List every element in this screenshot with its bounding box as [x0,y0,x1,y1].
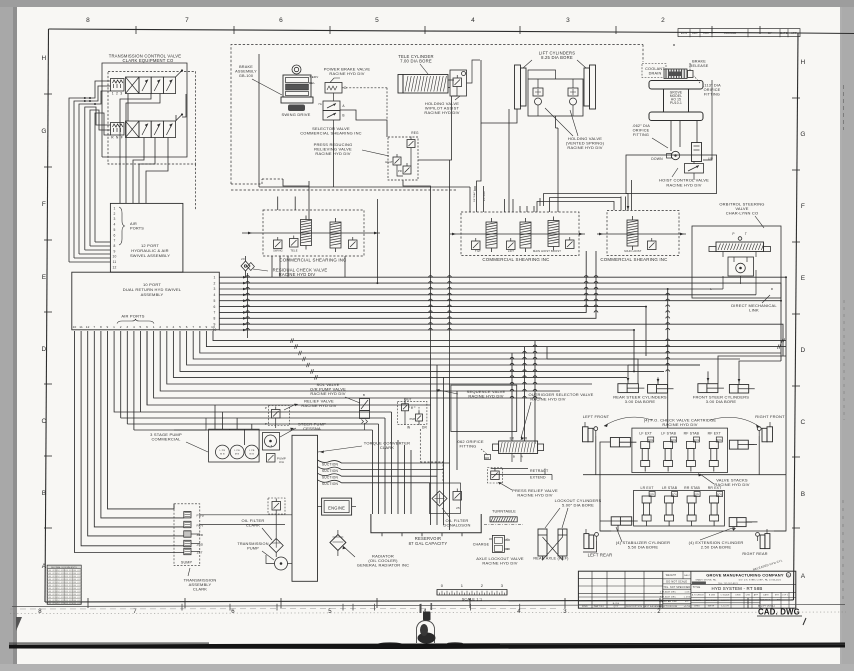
svg-text:1/64 .015: 1/64 .015 [72,579,80,581]
sol valve [360,393,370,430]
svg-text:SUCTION: SUCTION [322,462,339,466]
svg-text:.062″ DIA: .062″ DIA [632,124,650,128]
svg-text:1/64 .015: 1/64 .015 [72,603,80,605]
svg-text:CHK: CHK [703,31,709,35]
hops on inter-bank verticals [584,276,670,372]
transmission assembly dashed box [174,504,200,566]
pump inlet risers [215,405,252,445]
svg-text:1/64 .015: 1/64 .015 [64,594,72,596]
lift cylinder left barrel [515,65,527,109]
torque converter housing [292,435,318,581]
svg-text:REV: REV [777,600,782,602]
svg-text:10: 10 [112,255,116,259]
svg-text:PU10-1: PU10-1 [670,101,682,105]
svg-text:1/64 .015: 1/64 .015 [56,594,64,596]
rear steer cylinder left [618,384,645,393]
stack LR STAB [662,486,678,526]
svg-text:1/64 .015: 1/64 .015 [56,582,64,584]
svg-text:ECN: ECN [681,31,687,35]
svg-text:M B: M B [250,454,255,456]
retract extend lines [491,469,552,481]
label lockout cylinders [545,498,601,528]
hoist control valve internals [651,143,713,181]
label left front [583,414,610,419]
svg-text:1/64 .015: 1/64 .015 [64,576,72,578]
svg-text:±1/16: ±1/16 [684,606,691,608]
tele cylinder [398,75,454,94]
svg-text:10: 10 [211,325,215,329]
svg-text:MAIN HOIST: MAIN HOIST [624,249,641,253]
svg-text:C: C [801,419,806,426]
holding valve vented spring right [568,79,578,116]
label air ports (10 port) [117,314,154,324]
svg-text:L PB: L PB [249,450,255,452]
title block bottom rows [691,592,796,608]
svg-text:RR STAB: RR STAB [684,486,700,490]
decimal equivalents legend table [47,565,81,605]
svg-text:F: F [42,201,46,208]
svg-text:U/A: U/A [279,460,284,464]
label transmission control valve [109,54,182,64]
svg-text:7: 7 [213,311,215,315]
svg-text:5: 5 [140,325,142,329]
row2 bottom bus line [600,530,786,532]
staircase double-hash break marks [290,338,784,379]
svg-text:CHARGE: CHARGE [473,543,490,547]
label relief valve [284,399,337,411]
reservoir tank [371,514,481,536]
svg-text:SWING DRIVE: SWING DRIVE [281,112,310,117]
out-in-dr valve block [397,398,427,430]
svg-text:RACINE HYD DIV: RACINE HYD DIV [517,493,552,498]
label oil filter donaldson [442,508,471,528]
svg-text:RACINE HYD DIV: RACINE HYD DIV [567,145,602,150]
svg-text:H: H [42,55,47,62]
label left rear [588,553,613,558]
reservoir inlet pipes [140,412,411,514]
svg-text:PMP: PMP [410,418,416,421]
orbitrol gerotor section [710,257,774,295]
svg-text:4: 4 [173,325,175,329]
svg-text:RIGHT REAR: RIGHT REAR [742,552,767,556]
svg-text:SUCTION: SUCTION [322,469,339,473]
zone numbers top [86,17,665,24]
svg-text:1 OF 1: 1 OF 1 [782,595,789,597]
svg-text:E: E [801,275,806,282]
transmission control valve outline box [102,63,196,164]
dashed stub below tcv box [195,164,197,210]
press relief valve (outrigger) [488,468,503,484]
svg-text:FIND: FIND [582,606,588,608]
label selector valve [300,126,362,136]
svg-text:CHK: CHK [746,595,751,597]
valve stack row 2 box [634,490,725,526]
svg-text:BY: BY [768,31,772,35]
right rear corner cylinder [756,529,770,549]
svg-text:TITLE: TITLE [693,586,701,589]
svg-text:CAD FILE: CAD FILE [760,599,771,602]
hoist brake pack [664,63,693,79]
svg-text:H: H [801,59,806,66]
stack RR STAB [684,486,700,526]
svg-text:TELE: TELE [290,249,297,253]
bottom dotted baseline [10,609,846,614]
turntable bar [484,517,523,525]
svg-text:DATE: DATE [763,594,769,597]
svg-text:SMITH: SMITH [708,605,715,607]
label rear steer cylinders [613,395,667,405]
svg-text:87 GAL CAPACITY: 87 GAL CAPACITY [409,541,448,546]
svg-text:REAR AXLE (REF): REAR AXLE (REF) [533,557,569,561]
axle lockout valve [489,535,510,552]
label radiator [343,546,410,568]
svg-text:LF STAB: LF STAB [661,432,676,436]
oil filter donaldson box [430,483,461,514]
svg-text:3: 3 [213,287,215,291]
svg-text:10: 10 [73,325,77,329]
label holding valve vented spring [545,108,605,150]
svg-text:DONALDSON: DONALDSON [443,523,470,528]
svg-text:3 PLACE DEC: 3 PLACE DEC [660,595,677,598]
svg-text:C: C [42,418,47,425]
svg-text:1/64 .015: 1/64 .015 [72,585,80,587]
label transmission assembly [184,568,217,592]
air port lines descending [114,331,206,430]
svg-text:±.06: ±.06 [684,592,690,594]
svg-text:RF EXT: RF EXT [708,432,721,436]
svg-text:2: 2 [159,325,161,329]
svg-text:RIGHT FRONT: RIGHT FRONT [755,414,785,419]
hoist drum grove model HO 15 [649,81,703,121]
svg-text:RACINE HYD DIV: RACINE HYD DIV [301,403,336,408]
svg-text:RELEASE: RELEASE [690,64,709,68]
label extension cylinder [689,527,744,550]
bank 2 risers [473,186,558,212]
svg-text:G: G [41,128,46,135]
svg-text:5: 5 [213,299,215,303]
svg-text:RACINE HYD DIV: RACINE HYD DIV [329,71,364,76]
svg-text:BRAKE: BRAKE [692,60,706,64]
svg-text:ORIFICE: ORIFICE [633,129,650,133]
svg-text:DESCRIPTION: DESCRIPTION [626,606,643,608]
commercial shearing bank 1 (swing/tele) [263,210,364,263]
label released hyd cyl rotated [752,558,783,571]
svg-text:7: 7 [93,325,95,329]
labels EX PR [510,437,528,441]
svg-text:D: D [801,347,806,354]
wires transmission valves to left bundle [69,81,111,262]
label sol valve o/r pump valve [310,382,360,403]
svg-text:1/64 .015: 1/64 .015 [47,600,55,602]
svg-text:6: 6 [231,609,235,615]
svg-text:R N F: R N F [111,136,123,140]
svg-text:TILT: TILT [475,249,481,253]
3 stage pump box [209,429,260,462]
svg-text:1/64 .015: 1/64 .015 [56,597,64,599]
stabilizer cylinder rear-left [611,517,638,525]
bank 1 feed line [242,197,380,284]
label brake release [690,60,709,69]
label transmission pump [237,542,274,560]
title block title [691,585,796,593]
svg-text:6: 6 [113,233,115,237]
svg-text:11: 11 [113,260,117,264]
radiator diamond [330,530,346,556]
bus arrows [243,276,247,331]
svg-text:8: 8 [86,17,90,24]
bank2-bank3 connector loops [537,194,629,211]
title block middle column [659,571,691,608]
svg-text:1/64 .015: 1/64 .015 [47,603,55,605]
zone ticks bottom [88,598,748,608]
left front corner cylinder [583,422,598,442]
svg-text:RACINE HYD DIV: RACINE HYD DIV [468,394,503,399]
svg-text:RACINE HYD DIV: RACINE HYD DIV [310,391,345,396]
svg-text:1ST: 1ST [197,550,203,554]
steer cylinder feed wires [547,347,786,385]
label brake assembly GB-100 [235,65,282,95]
svg-text:1/64 .015: 1/64 .015 [47,585,55,587]
svg-text:6: 6 [146,325,148,329]
svg-text:CALC: CALC [684,574,691,577]
svg-text:1/64 .015: 1/64 .015 [56,591,64,593]
svg-text:±.016: ±.016 [684,596,691,598]
svg-text:CLARK: CLARK [380,445,394,450]
svg-text:L PB: L PB [234,450,240,452]
left bottom black wedge [16,617,22,631]
svg-text:COOLANT: COOLANT [645,67,665,71]
svg-text:D: D [42,346,47,353]
svg-text:7: 7 [185,17,189,24]
label press relief valve [498,482,558,498]
transmission pump circle [266,555,292,570]
svg-text:RETRACT: RETRACT [473,190,476,202]
svg-text:5.00″ DIA BORE: 5.00″ DIA BORE [562,503,594,508]
3 stage pump circles [216,445,259,459]
svg-text:1/64 .015: 1/64 .015 [56,603,64,605]
zone letters right [800,59,805,580]
svg-text:ANGULAR DIM: ANGULAR DIM [659,600,676,603]
bank1 bottom stubs [272,256,345,277]
svg-text:TOL. NOT SPECIFIED: TOL. NOT SPECIFIED [663,587,690,589]
right edge bus vertical [785,356,787,475]
svg-text:COMMERCIAL: COMMERCIAL [151,437,181,442]
svg-text:12: 12 [86,325,90,329]
svg-text:SHT: SHT [775,595,780,597]
label reservoir [409,536,448,546]
svg-text:1/64 .015: 1/64 .015 [72,570,80,572]
12-port hydraulic & air swivel assembly box [110,203,182,272]
outrigger selector valve [493,441,544,462]
commercial shearing bank 3 (main hoist) [600,211,679,263]
svg-text:4: 4 [133,325,135,329]
svg-text:CHAR-LYNN CO: CHAR-LYNN CO [726,211,759,216]
svg-text:AIR PORTS: AIR PORTS [121,314,144,319]
svg-text:25: 25 [456,506,460,510]
svg-text:RACINE HYD DIV: RACINE HYD DIV [424,110,459,115]
vertical from residual check crossing bus [246,273,250,338]
svg-text:RF STAB: RF STAB [684,432,700,436]
label stabilizer cylinder [616,527,671,550]
title block parts grid [578,571,663,608]
svg-text:1/64 .015: 1/64 .015 [64,591,72,593]
port numbers bottom of 10-port box [73,325,216,329]
wire junction dots left bundle [84,97,96,105]
mid verticals crossing to reservoir [431,355,458,530]
orbitrol steering valve symbol [709,232,771,257]
svg-text:7: 7 [113,239,115,243]
svg-text:1/64 .015: 1/64 .015 [64,585,72,587]
label charge [473,543,490,547]
svg-text:A: A [801,573,806,580]
second residual check diamond [241,257,254,271]
svg-text:2: 2 [661,17,665,24]
svg-text:T: T [745,232,747,236]
label hoist control valve [659,168,709,188]
svg-text:L B: L B [269,446,273,448]
svg-text:MAIN HOIST BOOST: MAIN HOIST BOOST [533,249,561,253]
svg-text:1: 1 [113,207,115,211]
svg-text:1/64 .015: 1/64 .015 [72,573,80,575]
oil filter clark valve [268,498,285,539]
svg-text:TRANSMISSION: TRANSMISSION [237,542,268,546]
svg-text:1/64 .015: 1/64 .015 [56,600,64,602]
svg-text:REG: REG [411,131,419,135]
power brake valve [325,78,347,101]
svg-text:RACINE HYD DIV: RACINE HYD DIV [666,183,701,188]
svg-text:EXTEND: EXTEND [484,191,486,201]
label turntable [492,510,516,514]
label axle lockout valve [476,556,524,566]
svg-text:3: 3 [566,17,570,24]
extension cylinder front-right [729,440,754,449]
svg-text:1/64 .015: 1/64 .015 [56,576,64,578]
steer pump [263,433,280,451]
svg-text:LF EXT: LF EXT [639,432,652,436]
svg-text:B DIM: B DIM [709,595,715,597]
label out [404,398,412,402]
svg-text:6: 6 [186,325,188,329]
svg-text:REV: REV [692,31,698,35]
svg-text:2X: 2X [241,257,245,261]
zone ticks top [136,26,760,34]
svg-text:B-294: B-294 [613,603,620,605]
label PO check valve cartridge [604,417,760,428]
stack RR EXT [708,486,723,526]
label tele cylinder [398,54,433,74]
svg-text:TURNTABLE: TURNTABLE [492,510,516,514]
svg-text:1/64 .015: 1/64 .015 [72,600,80,602]
sequence valve box [451,385,517,431]
svg-text:4: 4 [471,17,475,24]
relief valve [265,406,290,429]
svg-text:M B: M B [220,454,225,456]
svg-text:8: 8 [199,325,201,329]
svg-text:9: 9 [206,325,208,329]
svg-text:7A: 7A [318,102,322,106]
svg-text:2: 2 [120,325,122,329]
wire holding valve to bank2 riser [477,123,482,186]
wires transmission valves down to swivel [120,94,186,204]
svg-text:REV: REV [197,523,205,527]
svg-text:G: G [787,574,789,577]
main hydraulic bus bundle [219,251,786,371]
svg-text:P: P [265,406,267,410]
svg-text:AIR: AIR [130,222,137,226]
svg-text:GB-100: GB-100 [239,74,253,78]
revision table [678,29,800,38]
svg-text:2: 2 [213,281,215,285]
svg-text:6: 6 [213,305,215,309]
svg-text:8.25 DIA BORE: 8.25 DIA BORE [541,55,573,60]
svg-text:G: G [506,538,509,542]
oil filter donaldson diamond [432,489,462,511]
label swing drive [281,112,310,117]
svg-text:8: 8 [38,609,42,615]
svg-text:8: 8 [213,316,215,320]
svg-text:LR EXT: LR EXT [641,486,654,490]
front steer cylinder left [698,384,724,393]
svg-text:11: 11 [79,325,83,329]
svg-text:B: B [801,491,806,498]
svg-text:1/64 .015: 1/64 .015 [47,588,55,590]
svg-text:CHKD: CHKD [694,605,700,607]
svg-text:B: B [42,490,47,497]
svg-text:1/64 .015: 1/64 .015 [47,591,55,593]
lift cylinders holding valve circuit box [528,79,583,116]
svg-text:1/64 .015: 1/64 .015 [56,585,64,587]
label .113 dia orifice fitting [694,76,721,97]
svg-text:1/64 .015: 1/64 .015 [47,579,55,581]
svg-text:6: 6 [279,17,283,24]
selector valve [318,101,345,120]
label 3 stage pump [150,432,208,452]
svg-text:LEFT REAR: LEFT REAR [588,553,613,558]
svg-text:1-12-78: 1-12-78 [721,605,729,607]
svg-text:1/64 .015: 1/64 .015 [64,588,72,590]
engine box [318,498,357,515]
holding valve w/pilot assist [450,70,467,96]
svg-text:LIFT: LIFT [508,249,514,253]
svg-text:SUCTION: SUCTION [322,476,339,480]
label valve stacks [698,473,750,487]
svg-text:5: 5 [328,609,332,615]
stack RF EXT [708,432,723,472]
svg-text:PUMP: PUMP [247,547,259,551]
svg-text:1: 1 [153,325,155,329]
svg-text:PR: PR [398,169,402,173]
wires lift cylinders down [481,60,558,186]
label .062 orifice fitting (outrigger) [456,439,490,460]
press reducing relieving valve assembly [385,131,419,180]
svg-text:2.50 DIA BORE: 2.50 DIA BORE [701,545,732,550]
svg-text:7: 7 [133,609,137,615]
svg-text:FWD: FWD [197,514,205,518]
svg-text:4: 4 [517,609,521,615]
svg-text:1/64 .015: 1/64 .015 [56,579,64,581]
svg-text:5: 5 [375,17,379,24]
svg-text:PORTS: PORTS [130,227,144,231]
svg-text:SCALE 1:1: SCALE 1:1 [462,598,483,602]
svg-text:1: 1 [213,276,215,280]
svg-text:UP: UP [708,157,714,161]
lockout cylinders [538,529,567,560]
svg-text:1/64 .015: 1/64 .015 [47,573,55,575]
transmission gear boxes [184,512,205,555]
svg-text:B: B [363,393,365,397]
svg-text:BRAKE: BRAKE [239,65,253,69]
scale ruler [437,583,507,602]
